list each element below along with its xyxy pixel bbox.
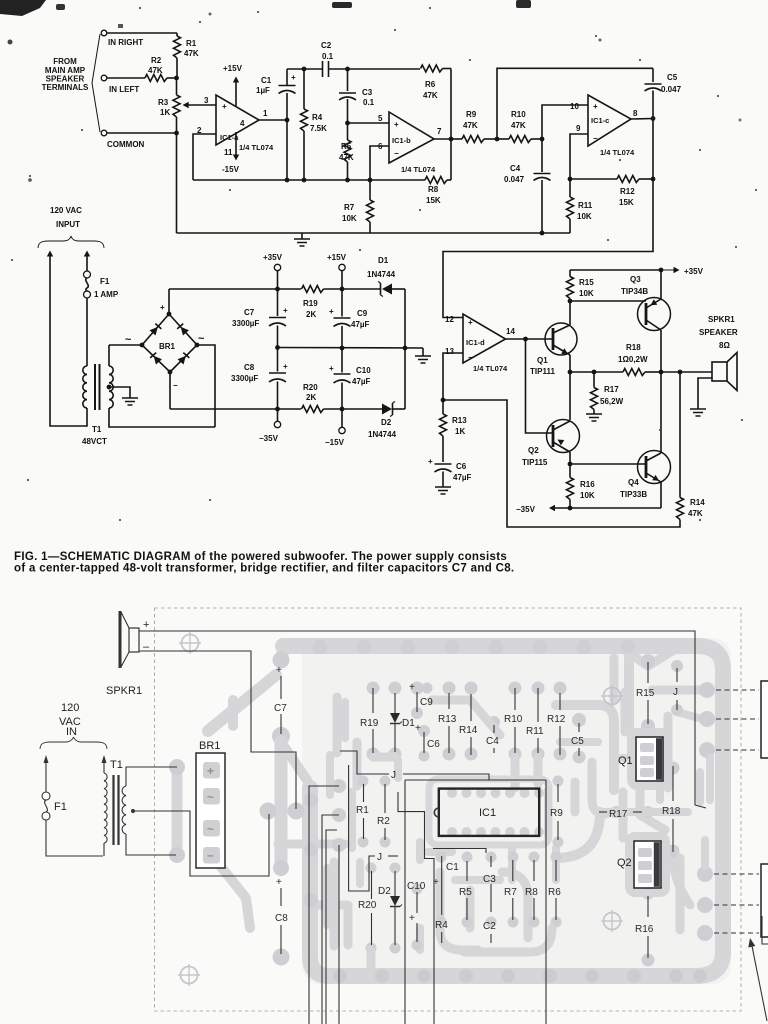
svg-text:+: +: [394, 120, 399, 129]
node R4 top: [302, 67, 307, 72]
svg-text:J: J: [391, 770, 396, 781]
svg-text:SPKR1: SPKR1: [708, 315, 735, 324]
resistor R7 pcb: [512, 860, 514, 881]
wire COMMON down to ground rail: [176, 133, 178, 233]
wire BR1 + to rail: [168, 289, 170, 314]
svg-text:R12: R12: [547, 714, 566, 725]
svg-text:COMMON: COMMON: [107, 140, 145, 149]
svg-text:47K: 47K: [688, 509, 703, 518]
svg-text:R13: R13: [438, 714, 457, 725]
capacitor C5 pcb: [578, 723, 580, 732]
svg-text:R8: R8: [428, 185, 439, 194]
svg-text:R7: R7: [504, 887, 517, 898]
pcb extra traces right of IC: [592, 762, 606, 814]
wire -35V: [552, 507, 662, 509]
capacitor C8: [277, 348, 279, 372]
svg-text:R3: R3: [158, 98, 169, 107]
BR1 diode bottom-left: [150, 352, 162, 364]
svg-text:BR1: BR1: [199, 740, 220, 752]
terminal -35V: [277, 409, 279, 421]
capacitor C1 / resistor R4 pcb: [441, 856, 443, 915]
svg-text:SPKR1: SPKR1: [106, 685, 142, 697]
svg-text:10: 10: [570, 102, 579, 111]
transistor Q4 TIP33B: [638, 451, 671, 484]
resistor R7: [369, 180, 371, 200]
node junction R1/R2: [174, 76, 179, 81]
pcb right column pads: [699, 682, 715, 698]
svg-text:IN LEFT: IN LEFT: [109, 85, 139, 94]
wire IC1-d pin13: [443, 353, 463, 400]
T1 pcb primary bottom: [103, 843, 105, 856]
svg-text:R11: R11: [526, 726, 544, 737]
svg-text:−15V: −15V: [325, 438, 345, 447]
arrow +35V: [661, 269, 677, 271]
svg-text:47K: 47K: [148, 66, 163, 75]
svg-text:1K: 1K: [160, 108, 170, 117]
svg-text:T1: T1: [110, 759, 123, 771]
svg-text:13: 13: [445, 347, 454, 356]
wire top rail left: [287, 68, 322, 70]
svg-text:10K: 10K: [580, 491, 595, 500]
svg-text:0.047: 0.047: [504, 175, 525, 184]
transistor Q3 TIP34B: [638, 298, 671, 331]
pcb trace component row1 top pads: [367, 682, 380, 695]
node IC1-b output: [449, 137, 454, 142]
resistor R18: [570, 371, 594, 373]
transistor Q2 TIP115: [547, 420, 580, 453]
jumper J2 wire: [349, 765, 375, 891]
svg-text:7.5K: 7.5K: [310, 124, 327, 133]
svg-text:15K: 15K: [619, 198, 634, 207]
wire junction up to C5 rail: [497, 68, 653, 139]
wire to R3: [176, 78, 178, 95]
ground rail y233: [177, 232, 571, 234]
capacitor C6: [435, 463, 452, 465]
capacitor C5: [652, 68, 654, 82]
resistor R18 pcb: [672, 766, 674, 801]
svg-text:+: +: [329, 307, 334, 316]
svg-text:0.1: 0.1: [322, 52, 334, 61]
wire IC1-a output: [259, 119, 287, 121]
terminal +35V: [274, 264, 280, 270]
svg-text:56,2W: 56,2W: [600, 397, 624, 406]
resistor R2: [145, 75, 167, 82]
svg-text:C2: C2: [321, 41, 332, 50]
pcb template dashed border: [155, 608, 742, 1011]
mount pad bottom right: [601, 910, 623, 932]
svg-text:48VCT: 48VCT: [82, 437, 107, 446]
svg-text:T1: T1: [92, 425, 102, 434]
jumper J3 pcb: [676, 668, 678, 682]
svg-text:47µF: 47µF: [453, 473, 472, 482]
pcb bottom band pads: [333, 969, 347, 983]
transformer T1 primary: [83, 366, 87, 408]
svg-text:R11: R11: [578, 201, 593, 210]
terminal -15V: [341, 409, 343, 427]
svg-text:R20: R20: [358, 900, 377, 911]
wire primary bottom loop: [50, 253, 87, 426]
svg-text:C1: C1: [261, 76, 272, 85]
node IC1-a output: [285, 118, 290, 123]
resistor R19 pcb: [372, 688, 374, 713]
svg-text:3300µF: 3300µF: [231, 374, 258, 383]
svg-text:120: 120: [61, 702, 79, 714]
svg-text:+: +: [160, 303, 165, 312]
wires to bottom edge left group: [309, 786, 339, 1024]
transistor Q1 TIP111: [545, 323, 577, 355]
brace 120 VAC IN: [40, 737, 107, 749]
pcb pads three wires: [332, 779, 346, 793]
svg-text:R9: R9: [466, 110, 477, 119]
wire COMMON: [107, 132, 177, 134]
resistor R16 pcb: [647, 896, 649, 917]
capacitor C3: [347, 69, 349, 91]
capacitor C10: [341, 348, 343, 373]
resistor R12: [570, 178, 617, 180]
pcb board background wash: [302, 638, 731, 984]
pcb gray halo Q1 Q2: [631, 732, 668, 786]
svg-text:+35V: +35V: [263, 253, 283, 262]
svg-text:C7: C7: [244, 308, 255, 317]
wire IC1-c pin 9: [570, 134, 588, 179]
wire BR1 ac right: [197, 345, 215, 427]
svg-text:C10: C10: [407, 881, 426, 892]
svg-text:−: −: [468, 353, 473, 362]
node C3 top: [345, 67, 350, 72]
node pin9/R11/R12: [568, 177, 573, 182]
pcb IC pin pads: [447, 788, 457, 798]
svg-text:FROM: FROM: [53, 57, 77, 66]
pcb trace halo around IC1: [429, 779, 549, 845]
pcb top band pads: [313, 640, 327, 654]
terminal +15V: [339, 264, 345, 270]
T1 center tap wire: [132, 811, 269, 876]
svg-text:2: 2: [197, 126, 202, 135]
svg-text:–: –: [143, 641, 150, 653]
svg-text:+: +: [222, 102, 227, 111]
capacitor C8 pcb: [280, 888, 282, 906]
svg-text:11: 11: [224, 148, 233, 157]
node pin13/R13: [441, 398, 446, 403]
svg-text:Q2: Q2: [617, 857, 632, 869]
node: input terminal IN RIGHT: [101, 30, 107, 36]
-35V rail: [170, 408, 301, 410]
svg-text:1: 1: [263, 109, 268, 118]
capacitor C7 pcb: [280, 676, 282, 699]
resistor R9 pcb: [557, 784, 559, 802]
wire D1 to ground rail: [404, 289, 406, 348]
wire inverting node line y180: [193, 179, 370, 181]
svg-text:47µF: 47µF: [351, 320, 370, 329]
jumper J1 wire: [340, 751, 389, 774]
pcb traces between rows: [353, 742, 362, 786]
ground symbol mid rail: [422, 348, 424, 356]
pcb component row1 bottom pads: [367, 748, 380, 761]
svg-text:−: −: [593, 134, 598, 143]
node R10 right: [540, 137, 545, 142]
op-amp IC1-c: [588, 95, 631, 146]
svg-text:C8: C8: [275, 913, 288, 924]
svg-text:R14: R14: [459, 725, 478, 736]
resistor R6 pcb: [555, 860, 557, 881]
svg-text:C4: C4: [510, 164, 521, 173]
svg-text:IC1-b: IC1-b: [392, 136, 411, 145]
120VAC input brace: [38, 236, 104, 248]
svg-text:C4: C4: [486, 736, 499, 747]
svg-text:1/4 TL074: 1/4 TL074: [473, 364, 508, 373]
BR1 diode bottom-right: [178, 352, 190, 364]
zener diode D2: [382, 404, 392, 415]
svg-text:D2: D2: [381, 418, 392, 427]
svg-text:+: +: [291, 73, 296, 82]
T1 pcb secondary: [122, 786, 126, 834]
svg-text:47K: 47K: [339, 153, 354, 162]
inner box around IC1: [405, 779, 546, 781]
T1 pcb core: [112, 775, 114, 845]
pcb wide vertical trace C7-C8 column: [275, 742, 288, 864]
wire top rail right of C2: [329, 68, 421, 70]
IC1-a -15V supply pin 11: [235, 132, 237, 158]
node IC1-c output: [651, 116, 656, 121]
resistor R11: [569, 179, 571, 197]
svg-text:R2: R2: [151, 56, 162, 65]
feedback wire R14 loop: [443, 400, 680, 527]
wire to IC1-b pin 5: [348, 122, 390, 124]
svg-text:~: ~: [207, 822, 214, 836]
connector 1 right edge: [761, 681, 768, 758]
svg-text:0.047: 0.047: [661, 85, 682, 94]
wire +35V rail top: [570, 269, 661, 271]
svg-text:C2: C2: [483, 921, 496, 932]
svg-text:47K: 47K: [184, 49, 199, 58]
svg-text:TIP111: TIP111: [530, 367, 555, 376]
pcb traces below IC extra: [428, 848, 452, 856]
svg-text:6: 6: [378, 142, 383, 151]
svg-text:−35V: −35V: [516, 505, 536, 514]
speckle noise: [139, 7, 141, 9]
svg-text:~: ~: [207, 790, 214, 804]
svg-text:1 AMP: 1 AMP: [94, 290, 119, 299]
wire IC1-a pin2 feedback: [193, 134, 216, 180]
BR1 diode top-left: [150, 323, 162, 335]
svg-text:2K: 2K: [306, 310, 316, 319]
wire speaker plus: [139, 631, 706, 808]
speaker SPKR1: [712, 362, 727, 381]
pcb misc pads: [422, 683, 433, 694]
resistor R15 pcb: [647, 662, 649, 683]
resistor R17 pcb dashes: [599, 811, 607, 813]
pcb pads right of BR1: [260, 803, 277, 820]
svg-text:C8: C8: [244, 363, 255, 372]
svg-text:R5: R5: [459, 887, 472, 898]
svg-text:C6: C6: [427, 739, 440, 750]
transformer T1 core: [94, 364, 96, 410]
svg-text:C5: C5: [571, 736, 584, 747]
svg-text:3: 3: [204, 96, 209, 105]
resistor R13: [442, 400, 444, 414]
svg-text:IN RIGHT: IN RIGHT: [108, 38, 143, 47]
speaker SPKR1 icon: [119, 611, 122, 668]
resistor R15: [569, 270, 571, 277]
svg-text:+: +: [433, 877, 439, 888]
svg-text:R15: R15: [579, 278, 594, 287]
+35V rail: [169, 288, 301, 290]
R3 wiper arrow / pin3 wire: [185, 104, 216, 106]
pcb pads C7: [273, 652, 290, 669]
svg-text:Q1: Q1: [618, 755, 633, 767]
resistor R5 pcb: [466, 861, 468, 881]
svg-text:2K: 2K: [306, 393, 316, 402]
svg-text:TIP34B: TIP34B: [621, 287, 648, 296]
op-amp IC1-b: [389, 112, 434, 163]
capacitor C6 pcb: [423, 732, 425, 753]
wire Q2 emitter to Q4 base: [570, 463, 646, 465]
svg-text:R12: R12: [620, 187, 635, 196]
node R12 right on output line: [651, 177, 656, 182]
resistor R20: [302, 406, 324, 413]
pcb component end pads rows: [436, 852, 447, 863]
svg-text:8Ω: 8Ω: [719, 341, 730, 350]
svg-text:+: +: [329, 364, 334, 373]
svg-text:12: 12: [445, 315, 454, 324]
svg-text:47K: 47K: [423, 91, 438, 100]
pcb pads R15 J: [641, 654, 655, 668]
svg-text:1Ω0,2W: 1Ω0,2W: [618, 355, 648, 364]
svg-text:−35V: −35V: [259, 434, 279, 443]
pcb left center extra: [326, 755, 334, 795]
svg-text:-15V: -15V: [222, 165, 240, 174]
svg-text:120 VAC: 120 VAC: [50, 206, 82, 215]
wire +15 node to D1: [342, 288, 380, 290]
wire IC1-d output to Q1 base: [506, 338, 554, 340]
svg-text:1/4 TL074: 1/4 TL074: [401, 165, 436, 174]
resistor R10: [497, 138, 509, 140]
ground below R17: [586, 414, 602, 421]
wire secondary top to BR1: [108, 345, 110, 366]
resistor R12 pcb: [559, 693, 561, 710]
svg-text:1µF: 1µF: [256, 86, 270, 95]
wire speaker minus: [139, 651, 296, 809]
resistor R8 feedback: [370, 179, 425, 181]
node junction COMMON: [174, 131, 179, 136]
svg-text:+: +: [207, 764, 214, 778]
fuse F1: [84, 291, 91, 298]
resistor R1: [176, 33, 178, 36]
svg-text:R8: R8: [525, 887, 538, 898]
svg-text:Q2: Q2: [528, 446, 539, 455]
wire IC1-c output to IC1-d pin12: [443, 119, 653, 318]
potentiometer R3: [173, 95, 180, 117]
T1 pcb secondary leads: [126, 767, 177, 786]
op-amp IC1-a: [216, 95, 259, 145]
svg-text:D1: D1: [378, 256, 389, 265]
capacitor C2: [322, 61, 324, 77]
svg-text:R16: R16: [580, 480, 595, 489]
op-amp IC1-d: [463, 314, 506, 363]
svg-text:C10: C10: [356, 366, 371, 375]
svg-text:C5: C5: [667, 73, 678, 82]
svg-text:C3: C3: [483, 874, 496, 885]
wire IN RIGHT to R1: [107, 32, 177, 34]
pcb traces left of IC: [348, 792, 356, 848]
mount pad bottom left: [178, 964, 200, 986]
svg-text:SPEAKER: SPEAKER: [699, 328, 738, 337]
pcb pads left of BR1: [172, 770, 183, 851]
wire BR1 ac left: [109, 344, 142, 346]
capacitor C1: [286, 93, 288, 120]
svg-text:F1: F1: [54, 801, 67, 813]
svg-text:+: +: [415, 723, 421, 734]
svg-text:R16: R16: [635, 924, 654, 935]
transformer T1 pcb primary: [104, 773, 107, 843]
pcb traces R15 area Y: [622, 648, 648, 666]
capacitor C9: [341, 289, 343, 317]
svg-text:R19: R19: [303, 299, 318, 308]
svg-text:−: −: [173, 381, 178, 390]
svg-text:3300µF: 3300µF: [232, 319, 259, 328]
svg-text:10K: 10K: [579, 289, 594, 298]
svg-text:+: +: [283, 306, 288, 315]
svg-text:Q3: Q3: [630, 275, 641, 284]
IC1 pcb body: [439, 789, 539, 836]
pcb bottom left loop: [318, 905, 348, 945]
node pin5 junction: [345, 121, 350, 126]
svg-text:R6: R6: [425, 80, 436, 89]
svg-text:+: +: [143, 619, 149, 631]
svg-text:47µF: 47µF: [352, 377, 371, 386]
resistor R2 pcb: [384, 784, 386, 813]
svg-text:R1: R1: [186, 39, 197, 48]
svg-text:+15V: +15V: [327, 253, 347, 262]
svg-text:9: 9: [576, 124, 581, 133]
pcb pads R17 R18: [667, 762, 680, 775]
pcb right side verticals: [624, 658, 634, 728]
svg-text:R17: R17: [604, 385, 619, 394]
resistor R20 pcb: [371, 871, 373, 899]
pcb trace diagonal to C7: [208, 675, 276, 731]
diode D1 pcb: [394, 693, 396, 713]
mount pad near speaker: [179, 632, 201, 654]
capacitor C4: [541, 139, 543, 172]
svg-text:R10: R10: [511, 110, 526, 119]
svg-text:D1: D1: [402, 718, 415, 729]
capacitor C10 pcb: [416, 892, 418, 913]
svg-text:1N4744: 1N4744: [368, 430, 397, 439]
ground symbol on rail: [301, 233, 303, 239]
wire D2 to ground rail: [404, 348, 406, 409]
svg-text:1K: 1K: [455, 427, 465, 436]
svg-text:Q4: Q4: [628, 478, 639, 487]
node: input terminal COMMON: [101, 130, 107, 136]
capacitor C9 pcb: [416, 692, 418, 712]
resistor R1 pcb: [363, 784, 365, 802]
resistor R17: [593, 372, 595, 388]
capacitor C4 pcb: [493, 725, 495, 733]
svg-text:10K: 10K: [342, 214, 357, 223]
svg-text:R19: R19: [360, 718, 379, 729]
svg-text:R6: R6: [548, 887, 561, 898]
pcb trace C7 area: [282, 648, 283, 660]
pcb loops right of IC: [556, 705, 614, 790]
svg-text:C7: C7: [274, 703, 287, 714]
svg-text:R7: R7: [344, 203, 355, 212]
transistor Q2 pcb: [634, 841, 661, 888]
wire IC1-b output: [434, 138, 451, 140]
mid ground rail: [278, 347, 424, 350]
svg-text:BR1: BR1: [159, 342, 176, 351]
svg-text:4: 4: [240, 119, 245, 128]
svg-text:~: ~: [125, 334, 132, 346]
